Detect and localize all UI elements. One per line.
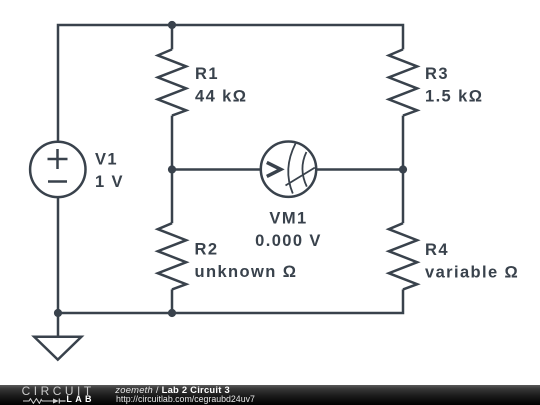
wire middle node to R2: [171, 170, 174, 224]
CircuitLab logo CIRCUIT: [22, 386, 95, 398]
wire R1 top lead: [171, 25, 174, 49]
footer title line: [115, 385, 230, 394]
resistor R1: [158, 49, 186, 115]
footer bar: [0, 385, 540, 405]
node dot bottom left: [54, 309, 62, 317]
wire voltmeter to right node: [316, 168, 403, 171]
resistor R3: [389, 49, 417, 115]
V1 plus sign: [48, 149, 68, 169]
wire R3 bottom lead: [402, 116, 405, 170]
svg-text:unknown Ω: unknown Ω: [195, 263, 298, 281]
wire R1 to middle node: [171, 116, 174, 170]
CircuitLab logo squiggle resistor-diode: [23, 398, 66, 404]
svg-text:R1: R1: [195, 65, 219, 83]
resistor R2: [158, 223, 186, 289]
svg-text:V1: V1: [95, 151, 118, 169]
wire bottom horizontal net: [172, 289, 403, 313]
resistor R4: [389, 223, 417, 289]
wire left vertical below V1: [57, 197, 60, 313]
svg-text:0.000 V: 0.000 V: [255, 232, 322, 250]
VM1 chevron: [267, 162, 281, 176]
CircuitLab logo LAB: [66, 395, 94, 404]
wire bottom left to ground junction: [58, 312, 172, 315]
voltage source V1 circle: [30, 142, 85, 197]
ground symbol: [34, 313, 81, 360]
svg-text:R4: R4: [425, 241, 449, 259]
wire middle node to voltmeter: [172, 168, 261, 171]
svg-text:R3: R3: [425, 65, 449, 83]
VM1 scale arc inner: [302, 152, 306, 187]
footer url line: [116, 395, 255, 404]
svg-text:variable Ω: variable Ω: [425, 263, 519, 281]
wire top horizontal net: [58, 25, 403, 142]
node dot middle: [168, 165, 176, 173]
svg-text:1.5 kΩ: 1.5 kΩ: [425, 88, 483, 106]
node dot right middle: [399, 165, 407, 173]
VM1 scale arc outer: [288, 144, 295, 194]
wire right node to R4: [402, 170, 405, 224]
node dot top (R1 top): [168, 21, 176, 29]
VM1 needle: [286, 168, 315, 186]
voltmeter VM1 circle: [261, 142, 316, 197]
svg-text:44 kΩ: 44 kΩ: [195, 87, 247, 105]
V1 minus sign: [48, 180, 67, 183]
svg-text:VM1: VM1: [269, 210, 307, 228]
svg-text:1 V: 1 V: [95, 173, 124, 191]
node dot bottom middle: [168, 309, 176, 317]
svg-text:R2: R2: [195, 241, 219, 259]
